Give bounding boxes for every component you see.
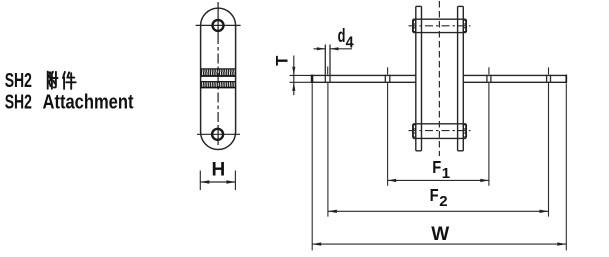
side view plate outline [201, 8, 236, 149]
dimension H label [212, 160, 226, 181]
svg-text:2: 2 [439, 193, 447, 210]
svg-text:SH2: SH2 [5, 70, 32, 92]
side view bottom hole centerline [197, 133, 240, 135]
dimension T extension lines [290, 75, 312, 82]
hole left outer centerline [327, 67, 329, 217]
link bottom pin centerline [409, 130, 471, 132]
svg-text:F: F [432, 157, 441, 177]
side view lower hatched band [201, 82, 236, 88]
link bottom pin left tab [413, 125, 416, 137]
svg-text:Attachment: Attachment [43, 91, 134, 113]
hole right outer centerline [548, 67, 550, 216]
side view upper hatched band [201, 69, 236, 76]
link top pin left tab [413, 20, 416, 31]
dimension W line [312, 242, 566, 245]
dimension F2 label [430, 185, 448, 210]
svg-text:F: F [430, 185, 439, 205]
front view plate left end cap [311, 75, 314, 83]
hole right outer edge lines [547, 75, 551, 83]
dimension W label [431, 224, 449, 245]
link top pin bar [413, 19, 466, 32]
dimension F1 label [432, 157, 450, 182]
side view top hole centerline [196, 24, 241, 26]
link left side plate [416, 6, 422, 150]
svg-text:4: 4 [346, 34, 354, 51]
front view plate bottom edge [311, 81, 567, 83]
dimension d4 arrows [314, 47, 353, 50]
svg-text:H: H [212, 160, 226, 181]
front view plate top edge [311, 74, 567, 76]
svg-text:W: W [431, 224, 449, 245]
svg-text:T: T [274, 56, 292, 66]
link bottom pin right tab [463, 125, 466, 137]
front view plate right end cap [565, 75, 567, 83]
dimension d4 label [338, 26, 354, 52]
hole right inner edge lines [487, 75, 491, 83]
link vertical centerline [438, 1, 440, 156]
svg-text:d: d [338, 26, 346, 47]
dimension T line [292, 56, 295, 96]
dimension H line [200, 180, 235, 183]
hole left outer edge lines [325, 45, 330, 83]
link right side plate [458, 6, 464, 150]
side view vertical centerline [217, 2, 219, 145]
dimension W extension lines [312, 83, 566, 250]
link bottom pin bar [413, 124, 466, 139]
svg-text:1: 1 [442, 165, 450, 182]
title glyph 件 [63, 72, 76, 89]
title line 1 SH2 [5, 70, 32, 92]
dimension F2 line [328, 210, 549, 213]
side view bottom hole [212, 129, 223, 140]
svg-text:SH2: SH2 [5, 91, 32, 113]
dimension H extension lines [200, 171, 235, 191]
hole right inner centerline [488, 67, 490, 186]
link top pin right tab [463, 20, 466, 31]
dimension T label [274, 56, 292, 66]
title glyph 附 [48, 72, 58, 89]
title line 2 SH2 Attachment [5, 91, 134, 113]
hole left inner edge lines [385, 75, 390, 83]
hole left inner centerline [387, 67, 389, 186]
side view top hole [213, 20, 224, 31]
dimension F1 line [388, 179, 489, 182]
link top pin centerline [409, 25, 471, 27]
